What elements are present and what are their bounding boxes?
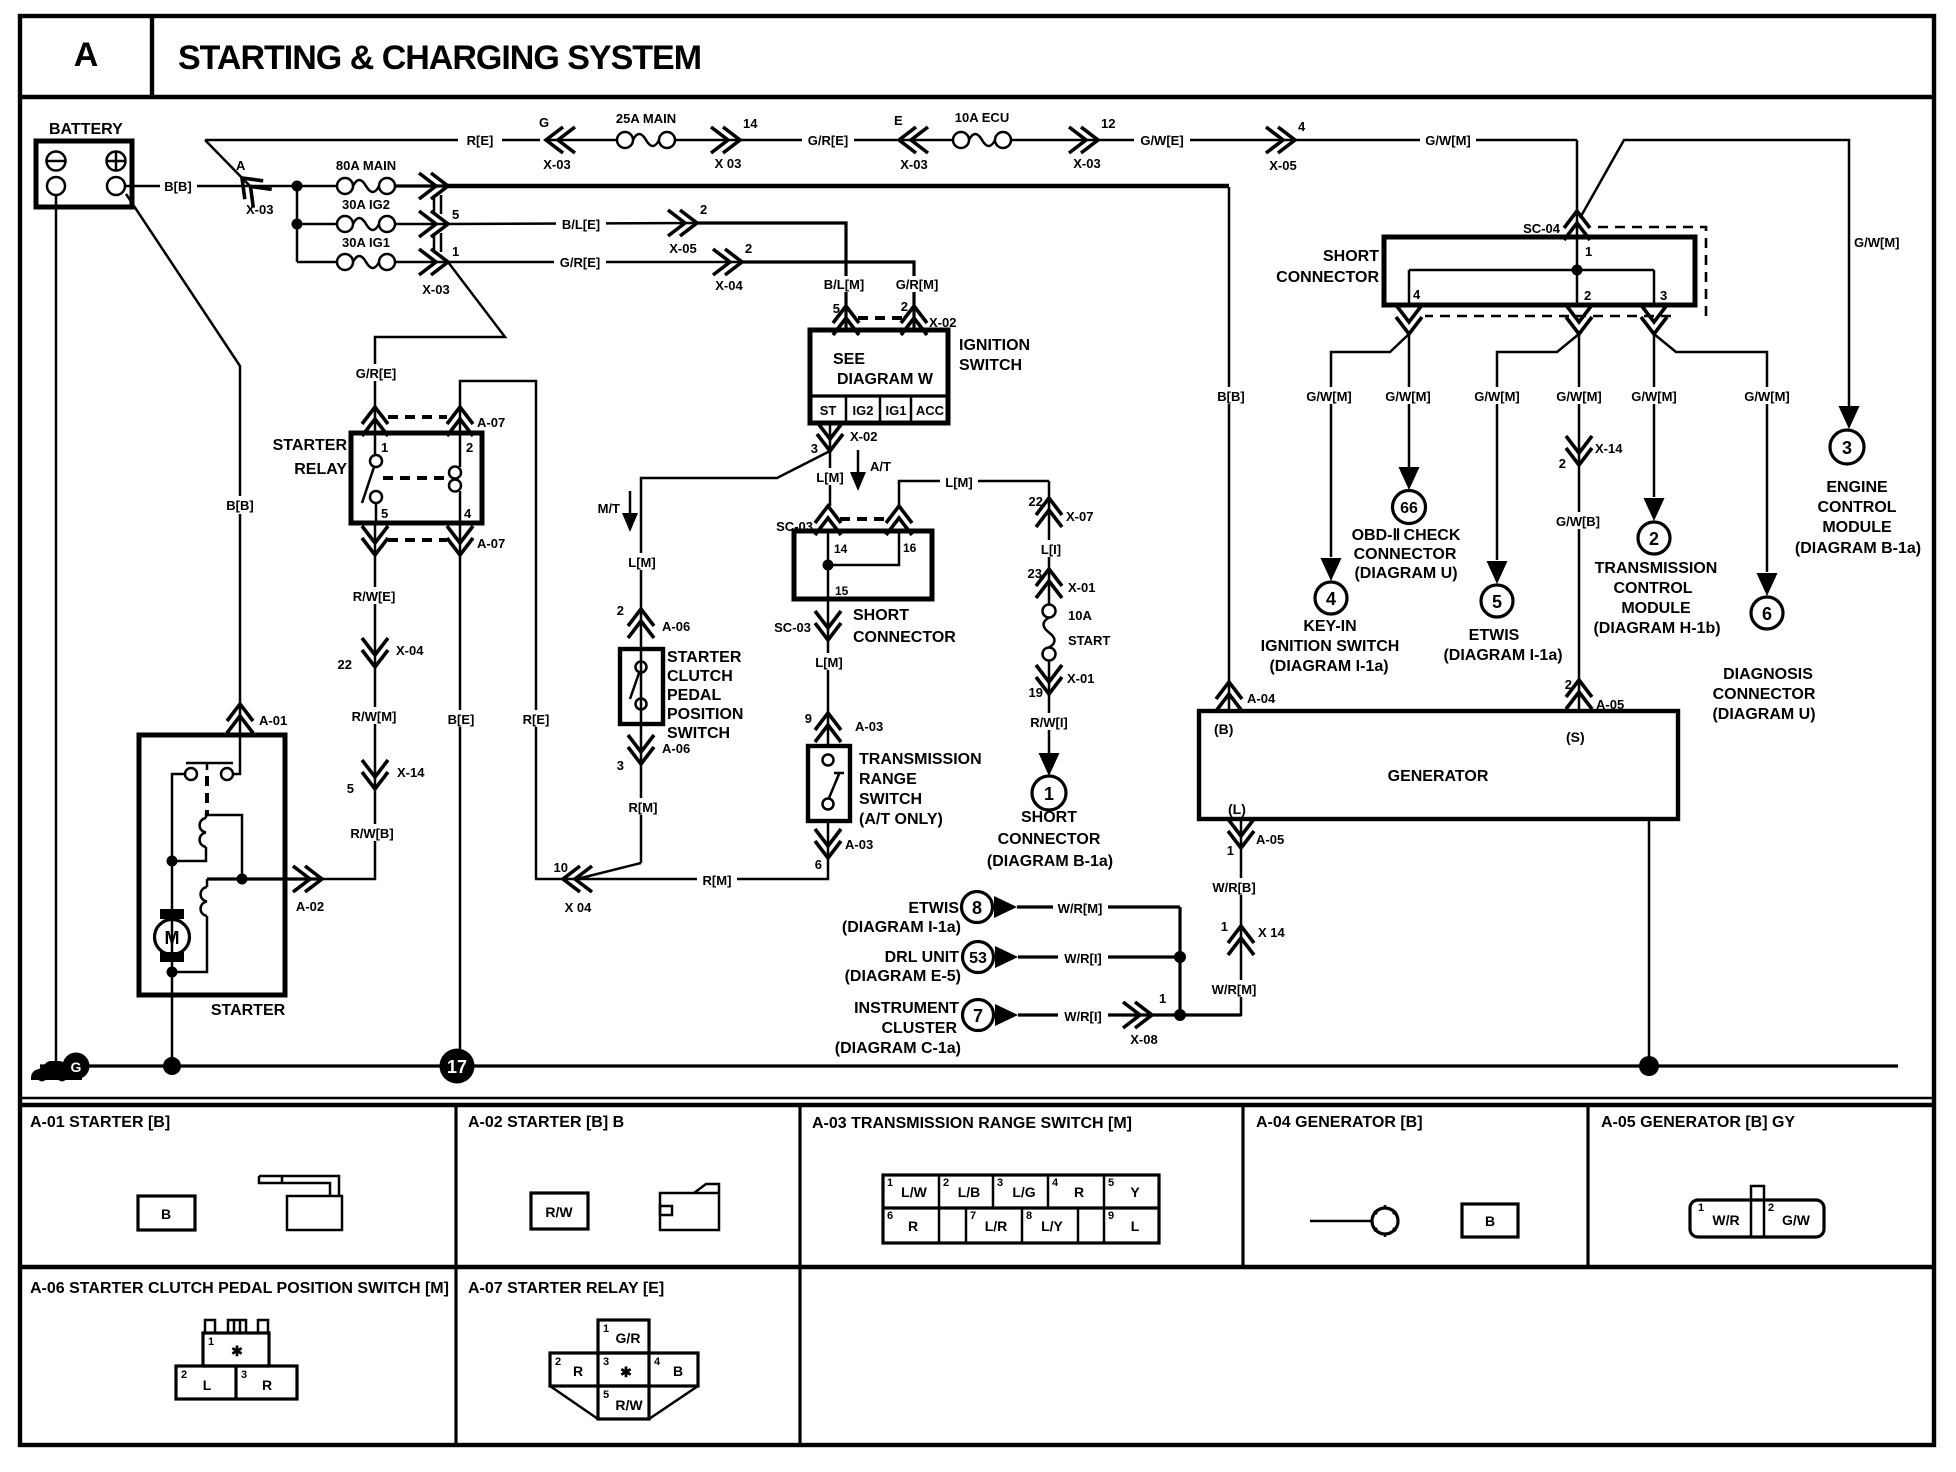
- connector X-04 2: [713, 241, 752, 293]
- svg-text:(S): (S): [1566, 729, 1585, 745]
- connector X-03 E: [894, 113, 928, 172]
- connector A-05 1: [1227, 819, 1284, 858]
- svg-text:SWITCH: SWITCH: [667, 725, 730, 742]
- solenoid pull-in coil: [172, 813, 206, 861]
- svg-text:10A: 10A: [1068, 608, 1092, 623]
- connector X-02 3: [811, 422, 878, 456]
- svg-text:30A IG1: 30A IG1: [342, 235, 390, 250]
- svg-text:Y: Y: [1130, 1184, 1140, 1200]
- svg-text:2: 2: [901, 299, 908, 314]
- connector X-03 14: [711, 116, 758, 171]
- svg-text:X-14: X-14: [1595, 441, 1623, 456]
- svg-text:PEDAL: PEDAL: [667, 687, 721, 704]
- svg-text:X 04: X 04: [565, 900, 593, 915]
- svg-text:ETWIS: ETWIS: [908, 900, 959, 917]
- fuse 10A START: [1043, 605, 1111, 661]
- svg-text:G/R: G/R: [616, 1330, 641, 1346]
- svg-text:(DIAGRAM U): (DIAGRAM U): [1712, 706, 1815, 723]
- svg-text:1: 1: [452, 244, 459, 259]
- svg-text:3: 3: [811, 441, 818, 456]
- generator box: [1199, 711, 1678, 819]
- svg-text:GENERATOR: GENERATOR: [1388, 768, 1489, 785]
- svg-text:X-03: X-03: [543, 157, 570, 172]
- svg-text:2: 2: [1649, 529, 1659, 549]
- svg-text:SC-03: SC-03: [774, 620, 811, 635]
- svg-text:G/W[E]: G/W[E]: [1140, 133, 1183, 148]
- svg-text:L/R: L/R: [985, 1218, 1008, 1234]
- transmission range switch box: [808, 746, 850, 821]
- svg-text:8: 8: [1026, 1210, 1032, 1222]
- wire diagonal battery to starter B[B]: [126, 194, 240, 735]
- svg-text:OBD-Ⅱ CHECK: OBD-Ⅱ CHECK: [1352, 527, 1461, 544]
- motor M: [155, 909, 190, 962]
- wire R/W[B] to starter: [322, 789, 375, 879]
- svg-text:(DIAGRAM B-1a): (DIAGRAM B-1a): [1795, 540, 1921, 557]
- svg-text:R/W[E]: R/W[E]: [353, 589, 396, 604]
- svg-text:17: 17: [447, 1057, 467, 1077]
- fuse 30A IG2: [297, 197, 448, 232]
- A-01 terminal drawing: [259, 1176, 342, 1230]
- svg-text:25A MAIN: 25A MAIN: [616, 111, 676, 126]
- svg-text:DRL UNIT: DRL UNIT: [885, 949, 960, 966]
- connector A-06 2: [617, 603, 690, 638]
- svg-text:A-01: A-01: [259, 713, 287, 728]
- svg-text:SWITCH: SWITCH: [859, 791, 922, 808]
- svg-text:3: 3: [603, 1356, 609, 1368]
- fuse 30A IG1: [297, 235, 448, 270]
- arrow + circle 2 TCM: [1638, 498, 1670, 554]
- connector A-02: [293, 866, 324, 914]
- svg-text:STARTER: STARTER: [211, 1002, 286, 1019]
- svg-text:5: 5: [603, 1389, 609, 1401]
- wire B/L[E] row: [448, 223, 697, 224]
- svg-text:8: 8: [972, 898, 982, 918]
- arrow A/T: [850, 450, 891, 491]
- wire G/W[E]: [1098, 139, 1295, 142]
- node R[M] label MT: [623, 798, 663, 815]
- svg-text:BATTERY: BATTERY: [49, 121, 123, 138]
- svg-text:6: 6: [815, 857, 822, 872]
- svg-text:A-03: A-03: [855, 719, 883, 734]
- svg-text:X-04: X-04: [396, 643, 424, 658]
- node L[M] label MT: [624, 553, 660, 570]
- wire L[M] down right branch: [1048, 481, 1051, 604]
- connector X-14 5: [347, 760, 425, 796]
- ground node G: [63, 1053, 90, 1080]
- svg-text:9: 9: [1108, 1210, 1114, 1222]
- svg-text:SHORT: SHORT: [853, 607, 909, 624]
- arrow to ECM: [1839, 406, 1860, 429]
- battery B1: [36, 141, 132, 207]
- svg-text:(DIAGRAM I-1a): (DIAGRAM I-1a): [1443, 647, 1562, 664]
- svg-text:CONNECTOR: CONNECTOR: [1276, 269, 1379, 286]
- A-03 connector grid: [883, 1175, 1159, 1243]
- svg-text:5: 5: [833, 301, 840, 316]
- svg-text:A-07: A-07: [477, 415, 505, 430]
- connector A-07 upper: [362, 407, 505, 436]
- wire pin4 to OBD: [1408, 334, 1411, 467]
- svg-text:22: 22: [338, 657, 352, 672]
- svg-text:(DIAGRAM C-1a): (DIAGRAM C-1a): [835, 1040, 961, 1057]
- svg-text:R: R: [573, 1363, 583, 1379]
- node G/R[E] label relay feed: [350, 364, 402, 381]
- svg-text:ST: ST: [820, 403, 837, 418]
- svg-text:CONNECTOR: CONNECTOR: [998, 831, 1101, 848]
- svg-text:G/W[M]: G/W[M]: [1306, 389, 1351, 404]
- svg-text:X 14: X 14: [1258, 925, 1286, 940]
- svg-text:X-14: X-14: [397, 765, 425, 780]
- solenoid hold coil: [172, 879, 207, 972]
- svg-text:POSITION: POSITION: [667, 706, 743, 723]
- fuse 80A MAIN: [336, 158, 396, 194]
- circle 7 cluster: [963, 1000, 1019, 1031]
- svg-text:W/R[M]: W/R[M]: [1058, 901, 1103, 916]
- svg-text:B: B: [1485, 1213, 1495, 1229]
- wire W/R bus vertical: [1178, 907, 1181, 1015]
- svg-text:R[E]: R[E]: [523, 712, 550, 727]
- svg-text:B: B: [673, 1363, 683, 1379]
- short connector box SC-04: [1384, 237, 1695, 305]
- svg-text:ETWIS: ETWIS: [1469, 627, 1520, 644]
- svg-text:A-05: A-05: [1596, 697, 1624, 712]
- svg-text:X-07: X-07: [1066, 509, 1093, 524]
- wire pin2 to generator S: [1578, 334, 1581, 711]
- svg-text:STARTING & CHARGING SYSTEM: STARTING & CHARGING SYSTEM: [178, 39, 701, 77]
- arrow + circle 6 DIAGNOSIS: [1751, 573, 1783, 629]
- connector X-04 22: [338, 638, 425, 672]
- svg-text:L[M]: L[M]: [628, 555, 655, 570]
- svg-text:W/R: W/R: [1712, 1212, 1739, 1228]
- ground bus wire: [40, 1064, 1898, 1067]
- schematic bottom separator: [20, 1097, 1934, 1100]
- junction dot W/R 1: [1174, 951, 1186, 963]
- svg-text:6: 6: [1762, 604, 1772, 624]
- svg-text:2: 2: [700, 202, 707, 217]
- svg-text:2: 2: [1768, 1202, 1774, 1214]
- svg-text:A-05 GENERATOR [B] GY: A-05 GENERATOR [B] GY: [1601, 1114, 1795, 1131]
- svg-text:G/W[M]: G/W[M]: [1631, 389, 1676, 404]
- node B/L[M] label: [820, 276, 870, 292]
- wire W/R[I] DRL: [1018, 955, 1180, 958]
- svg-text:53: 53: [969, 950, 987, 967]
- svg-text:4: 4: [1413, 287, 1421, 302]
- svg-text:SC-04: SC-04: [1523, 221, 1561, 236]
- node R[E] label: [519, 710, 553, 727]
- svg-text:(DIAGRAM H-1b): (DIAGRAM H-1b): [1593, 620, 1720, 637]
- wire starter ground: [171, 972, 174, 1066]
- svg-text:(DIAGRAM I-1a): (DIAGRAM I-1a): [1269, 658, 1388, 675]
- svg-text:(DIAGRAM B-1a): (DIAGRAM B-1a): [987, 853, 1113, 870]
- svg-text:IGNITION SWITCH: IGNITION SWITCH: [1261, 638, 1400, 655]
- ground symbol car: [31, 1061, 82, 1082]
- svg-text:1: 1: [603, 1323, 609, 1335]
- svg-text:5: 5: [381, 506, 388, 521]
- wire pin2 to ETWIS: [1497, 334, 1579, 560]
- wire battery minus to ground bus: [55, 195, 58, 1066]
- svg-text:3: 3: [1660, 288, 1667, 303]
- svg-text:23: 23: [1028, 566, 1042, 581]
- wire diagonal to ECM feed: [1580, 140, 1849, 412]
- svg-text:RELAY: RELAY: [294, 461, 347, 478]
- wire pin3 to diagnosis: [1654, 334, 1767, 572]
- connector X-08 1: [1123, 991, 1166, 1047]
- svg-text:2: 2: [1559, 456, 1566, 471]
- starter clutch pedal position switch box: [620, 649, 663, 724]
- svg-text:(DIAGRAM U): (DIAGRAM U): [1354, 565, 1457, 582]
- A-07 connector drawing: [550, 1320, 698, 1419]
- svg-text:2: 2: [943, 1177, 949, 1189]
- arrow + circle 4 KEY-IN: [1315, 558, 1347, 614]
- svg-text:16: 16: [903, 541, 917, 555]
- svg-text:A-06 STARTER CLUTCH PEDAL POSI: A-06 STARTER CLUTCH PEDAL POSITION SWITC…: [30, 1280, 449, 1297]
- svg-text:G: G: [539, 115, 549, 130]
- connector A-06 3: [617, 735, 690, 773]
- svg-text:3: 3: [617, 758, 624, 773]
- wire B[E] relay pin4 to ground: [459, 523, 462, 1060]
- svg-text:X-03: X-03: [422, 282, 449, 297]
- junction dot: [167, 856, 178, 867]
- svg-text:DIAGRAM W: DIAGRAM W: [837, 371, 934, 388]
- svg-text:2: 2: [555, 1356, 561, 1368]
- wire W/R[M]: [1017, 905, 1180, 908]
- svg-text:CONTROL: CONTROL: [1613, 580, 1692, 597]
- svg-text:G/W[M]: G/W[M]: [1385, 389, 1430, 404]
- wire ST pin down: [829, 423, 832, 451]
- wire R/W[E]: [374, 523, 377, 667]
- junction dot generator ground: [1639, 1056, 1659, 1076]
- svg-text:2: 2: [466, 440, 473, 455]
- svg-text:G/W[M]: G/W[M]: [1854, 235, 1899, 250]
- connector X-14 1: [1221, 919, 1286, 955]
- A-05 connector drawing: [1690, 1186, 1824, 1237]
- ignition switch box: [810, 330, 948, 423]
- svg-text:R/W[M]: R/W[M]: [352, 709, 397, 724]
- svg-text:ACC: ACC: [916, 403, 945, 418]
- svg-text:14: 14: [743, 116, 758, 131]
- svg-text:G/W[M]: G/W[M]: [1556, 389, 1601, 404]
- A-06 connector drawing: [176, 1320, 297, 1399]
- svg-text:3: 3: [1842, 438, 1852, 458]
- svg-text:SHORT: SHORT: [1021, 809, 1077, 826]
- svg-text:10A ECU: 10A ECU: [955, 110, 1009, 125]
- svg-text:CLUTCH: CLUTCH: [667, 668, 733, 685]
- fuse 25A MAIN: [546, 111, 676, 148]
- svg-text:E: E: [894, 113, 903, 128]
- arrow + circle 66 OBD: [1393, 467, 1426, 524]
- connector SC-03 lower: [774, 611, 841, 640]
- A-04 wire color box B: [1462, 1204, 1518, 1237]
- wire diagonal R[E] pickoff: [205, 140, 250, 186]
- wire G/R[E] row: [448, 261, 742, 264]
- svg-text:L/Y: L/Y: [1041, 1218, 1063, 1234]
- svg-text:1: 1: [1227, 843, 1234, 858]
- wire M/T branch: [641, 451, 830, 863]
- svg-text:CONNECTOR: CONNECTOR: [1354, 546, 1457, 563]
- connector X-03 12: [1069, 116, 1115, 171]
- svg-text:SHORT: SHORT: [1323, 248, 1379, 265]
- connector SC-04 lower chevrons: [1396, 305, 1667, 334]
- svg-text:R[M]: R[M]: [703, 873, 732, 888]
- wire pin1 into relay: [374, 407, 377, 455]
- svg-text:L[M]: L[M]: [945, 475, 972, 490]
- circle 8 ETWIS: [962, 892, 1018, 923]
- wire A/T branch L[M]: [829, 451, 832, 506]
- svg-text:DIAGNOSIS: DIAGNOSIS: [1723, 666, 1813, 683]
- svg-text:4: 4: [464, 506, 472, 521]
- connector X-03 A on diagonal: [233, 158, 274, 217]
- svg-text:G/W[B]: G/W[B]: [1556, 514, 1600, 529]
- svg-text:R: R: [1074, 1184, 1084, 1200]
- svg-text:B[B]: B[B]: [1217, 389, 1244, 404]
- connector X-04 10: [554, 860, 593, 915]
- connector A-03 9: [805, 711, 883, 742]
- svg-text:5: 5: [452, 207, 459, 222]
- svg-text:X-03: X-03: [900, 157, 927, 172]
- wire range switch to R[M]: [535, 821, 828, 879]
- svg-text:1: 1: [208, 1336, 214, 1348]
- svg-text:G/R[M]: G/R[M]: [896, 277, 939, 292]
- svg-text:SWITCH: SWITCH: [959, 357, 1022, 374]
- svg-text:G: G: [71, 1059, 82, 1075]
- wire B[B] down to generator: [1228, 187, 1231, 711]
- svg-text:5: 5: [347, 781, 354, 796]
- svg-text:A-06: A-06: [662, 619, 690, 634]
- A-02 terminal drawing: [660, 1184, 719, 1230]
- svg-text:A-03 TRANSMISSION RANGE SWITCH: A-03 TRANSMISSION RANGE SWITCH [M]: [812, 1115, 1132, 1132]
- svg-text:START: START: [1068, 633, 1110, 648]
- starter solenoid contacts: [185, 735, 240, 815]
- svg-text:ENGINE: ENGINE: [1826, 479, 1888, 496]
- svg-text:X-05: X-05: [1269, 158, 1296, 173]
- junction dot battery ground: [163, 1057, 181, 1075]
- wire MT merge diagonal: [577, 863, 641, 879]
- svg-text:5: 5: [1492, 592, 1502, 612]
- svg-text:9: 9: [805, 711, 812, 726]
- A-04 terminal drawing: [1310, 1205, 1398, 1237]
- svg-text:4: 4: [1298, 119, 1306, 134]
- svg-text:M/T: M/T: [598, 501, 620, 516]
- svg-text:B[B]: B[B]: [164, 179, 191, 194]
- svg-text:R/W[I]: R/W[I]: [1030, 715, 1068, 730]
- svg-text:SEE: SEE: [833, 351, 865, 368]
- svg-text:R[E]: R[E]: [467, 133, 494, 148]
- svg-text:4: 4: [1052, 1177, 1059, 1189]
- relay coil: [383, 433, 461, 523]
- svg-text:G/R[E]: G/R[E]: [356, 366, 396, 381]
- svg-text:R[M]: R[M]: [629, 800, 658, 815]
- svg-text:B/L[E]: B/L[E]: [562, 217, 600, 232]
- svg-text:R: R: [908, 1218, 918, 1234]
- relay pin numbers: [381, 440, 473, 521]
- svg-text:IG2: IG2: [853, 403, 874, 418]
- svg-text:A-04 GENERATOR [B]: A-04 GENERATOR [B]: [1256, 1114, 1423, 1131]
- svg-text:2: 2: [1565, 677, 1572, 692]
- wire G/R[E]: [740, 139, 897, 142]
- svg-text:10: 10: [554, 860, 568, 875]
- wire L[M] to range switch: [827, 599, 830, 746]
- connector X-03 G: [539, 115, 575, 172]
- connector X-02 upper: [833, 299, 957, 335]
- wire diagonal to starter relay feed: [375, 262, 505, 407]
- wire generator case ground: [1648, 819, 1651, 1066]
- starter wire left branch: [172, 774, 185, 972]
- svg-text:L: L: [1131, 1218, 1140, 1234]
- svg-text:G/R[E]: G/R[E]: [560, 255, 600, 270]
- wire to 12 chevron: [1011, 139, 1098, 142]
- svg-text:3: 3: [241, 1369, 247, 1381]
- svg-text:W/R[B]: W/R[B]: [1212, 880, 1255, 895]
- table grid: [20, 1105, 1934, 1443]
- svg-text:X-03: X-03: [246, 202, 273, 217]
- svg-text:X-03: X-03: [1073, 156, 1100, 171]
- svg-text:(L): (L): [1228, 801, 1246, 817]
- svg-text:B: B: [161, 1206, 171, 1222]
- arrow + circle 5 ETWIS2: [1481, 561, 1513, 617]
- svg-text:X-08: X-08: [1130, 1032, 1157, 1047]
- wire pin4 to key-in: [1331, 334, 1409, 557]
- svg-text:G/W[M]: G/W[M]: [1425, 133, 1470, 148]
- junction dot W/R 2: [1174, 1009, 1186, 1021]
- connector X-07 22: [1029, 494, 1094, 527]
- svg-text:A-04: A-04: [1247, 691, 1276, 706]
- node G/W[B] label: [1552, 512, 1604, 529]
- circle 53 DRL: [963, 942, 1019, 973]
- wire R[E] top row: [205, 139, 540, 142]
- svg-text:W/R[M]: W/R[M]: [1212, 982, 1257, 997]
- svg-text:A-07 STARTER RELAY [E]: A-07 STARTER RELAY [E]: [468, 1280, 664, 1297]
- wire G/R thick to ignition: [742, 262, 914, 330]
- svg-text:L[I]: L[I]: [1041, 542, 1061, 557]
- svg-text:2: 2: [745, 241, 752, 256]
- svg-text:2: 2: [181, 1369, 187, 1381]
- svg-text:X-01: X-01: [1067, 671, 1094, 686]
- svg-text:1: 1: [381, 440, 388, 455]
- coil top loop to A-02: [206, 815, 242, 879]
- svg-text:TRANSMISSION: TRANSMISSION: [1595, 560, 1718, 577]
- node G/R[M] label: [892, 276, 942, 292]
- svg-text:W/R[I]: W/R[I]: [1064, 951, 1102, 966]
- svg-text:19: 19: [1029, 685, 1043, 700]
- svg-text:KEY-IN: KEY-IN: [1303, 618, 1356, 635]
- connector A-01: [227, 704, 287, 733]
- svg-text:A/T: A/T: [870, 459, 891, 474]
- svg-text:30A IG2: 30A IG2: [342, 197, 390, 212]
- svg-text:5: 5: [1108, 1177, 1114, 1189]
- svg-text:RANGE: RANGE: [859, 771, 917, 788]
- svg-text:IG1: IG1: [886, 403, 907, 418]
- svg-text:W/R[I]: W/R[I]: [1064, 1009, 1102, 1024]
- svg-text:B[B]: B[B]: [226, 498, 253, 513]
- node 17: [440, 1049, 475, 1084]
- svg-text:X-04: X-04: [715, 278, 743, 293]
- svg-text:STARTER: STARTER: [273, 437, 348, 454]
- svg-text:G/W[M]: G/W[M]: [1744, 389, 1789, 404]
- svg-text:L/G: L/G: [1012, 1184, 1035, 1200]
- dashed connector outline SC-04: [1425, 227, 1706, 316]
- wire pin16 up to L[M]: [899, 481, 1049, 506]
- svg-text:B[E]: B[E]: [448, 712, 475, 727]
- svg-text:L/W: L/W: [901, 1184, 927, 1200]
- svg-text:(A/T ONLY): (A/T ONLY): [859, 811, 943, 828]
- A-01 wire color box B: [138, 1196, 195, 1230]
- svg-text:R: R: [262, 1377, 272, 1393]
- svg-text:CONNECTOR: CONNECTOR: [1713, 686, 1816, 703]
- svg-text:CONNECTOR: CONNECTOR: [853, 629, 956, 646]
- svg-text:X-01: X-01: [1068, 580, 1095, 595]
- wire battery plus B[B]: [125, 185, 337, 188]
- svg-text:1: 1: [1159, 991, 1166, 1006]
- svg-text:MODULE: MODULE: [1822, 519, 1892, 536]
